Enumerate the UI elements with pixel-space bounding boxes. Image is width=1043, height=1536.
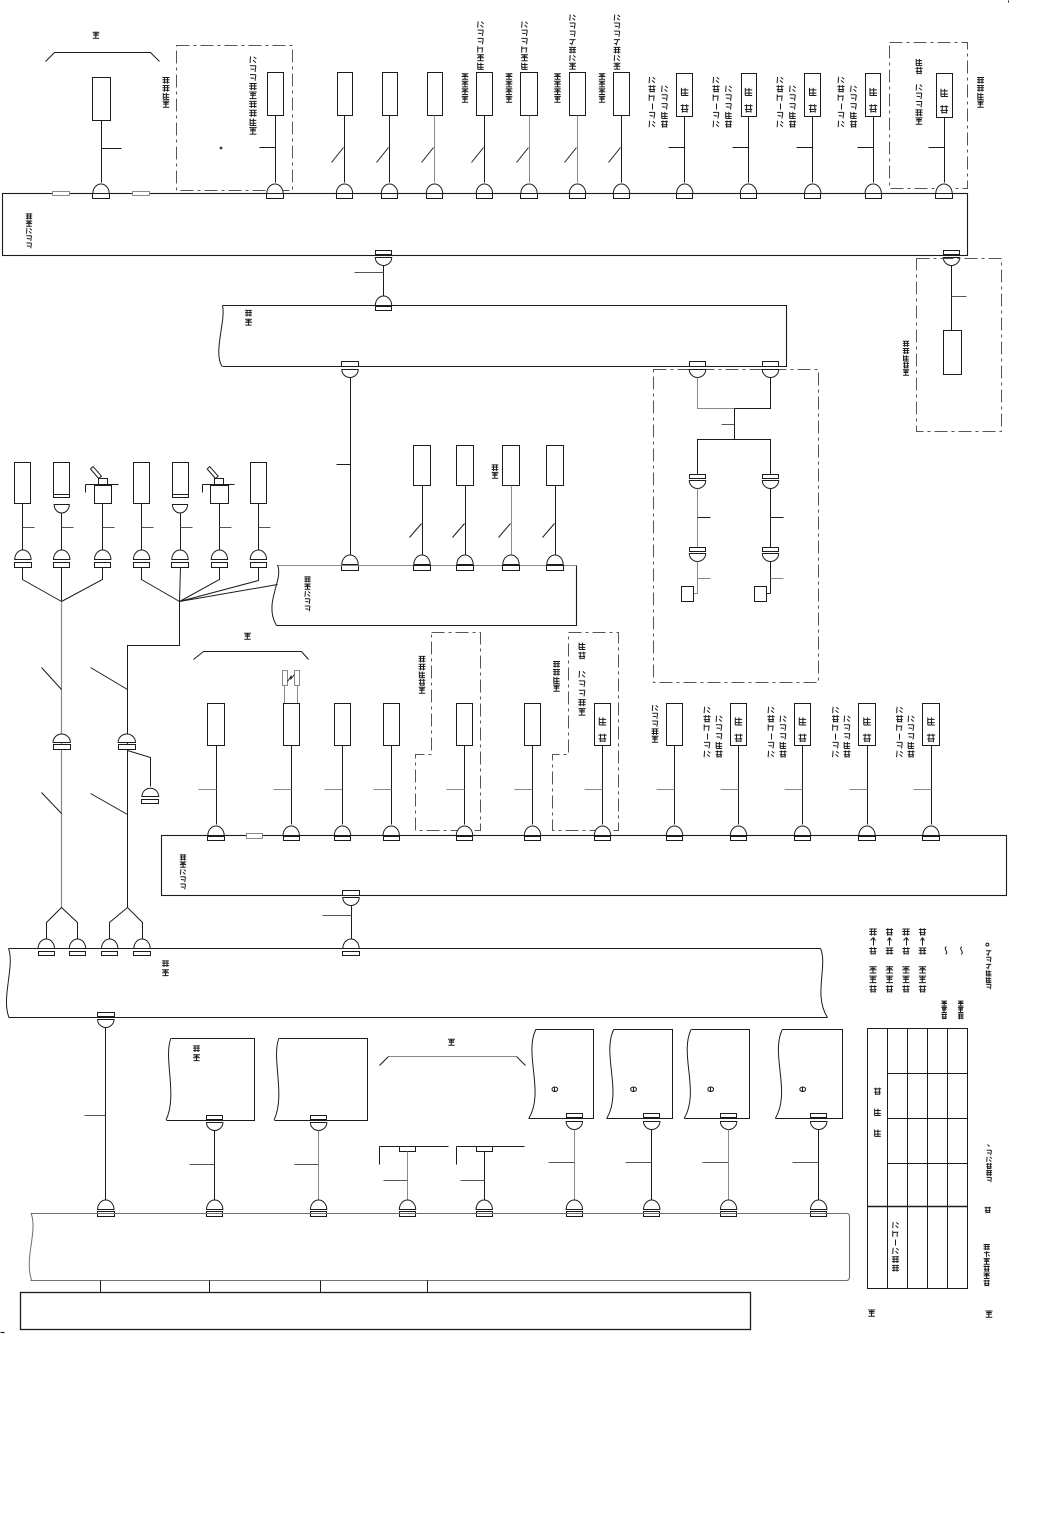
tick on theta wire 2 [626, 1162, 652, 1164]
label 対象ケーブル [892, 1265, 899, 1271]
connector plug on box1 at x=748.5 [740, 184, 756, 194]
wire L6 down to connector [219, 504, 221, 552]
cable slash mark Mx=465 [453, 524, 465, 538]
sensor body at x=944 (top row) [937, 74, 953, 118]
table column line x=947.7 [947, 1029, 949, 1289]
relay box theta 1 [529, 1030, 594, 1119]
sensor body at x=342.5 (lower row) [335, 704, 351, 746]
tick on branch x=697.5 [698, 517, 711, 519]
margin mark top-right [1008, 1, 1010, 3]
label theta 1 [552, 1087, 558, 1091]
entry connector box6 top x=484.2 [476, 1200, 492, 1210]
label theta 4 [800, 1087, 806, 1091]
distribution bar wire [698, 440, 771, 475]
relay box 中継 A (small) [167, 1039, 255, 1121]
inline connector pair L2 [54, 550, 70, 559]
tick on wire x=291.2 [274, 789, 292, 791]
Y-split of trunk1 [47, 908, 78, 939]
wire from sensor x=674.5 to box4 [674, 746, 676, 825]
annotation 奥基準 右→左 [919, 985, 926, 992]
table column line x=887.1 [887, 1029, 889, 1289]
enclosure 自動幅調 (dash-dot, top-right) [890, 43, 968, 189]
wire from sensor x=101 to box1 [101, 121, 103, 183]
tick on wire L1 [23, 527, 35, 529]
relay box センサ中継 (top) [3, 194, 968, 256]
connector plug on box5 at x=142 [134, 939, 150, 948]
enclosure 一括交換台 (dash-dot, right) [917, 259, 1002, 432]
relay box B (small, unlabeled) [275, 1039, 368, 1121]
inline connector pair L5 [172, 550, 188, 560]
label 接続先 [875, 1129, 881, 1136]
wire from sensor x=216 to box4 [216, 746, 218, 825]
label 原点センサ [652, 736, 659, 742]
cable slash mark x=344.5 [332, 148, 344, 163]
label 右基板 [958, 1014, 964, 1019]
sensor M at x=422 (middle row) [414, 446, 431, 486]
tick on wire x=391.2 [374, 789, 392, 791]
tick on wire L7 [259, 527, 271, 529]
tick mark on wire x=350 [337, 464, 351, 466]
tick on branch x=770.5 [771, 517, 784, 519]
wire L2 to junction J1 [61, 568, 63, 602]
connector plug on box4 at x=802.5 [794, 826, 810, 836]
sensor body at x=275 (top row) [268, 73, 284, 116]
exit connector theta box 1 [567, 1114, 583, 1118]
wavy left edge box5 [6, 949, 10, 1018]
stems of R2 head [284, 686, 286, 704]
label 注 (right margin) [985, 1311, 992, 1317]
sensor body at x=748.5 (top row) [742, 74, 757, 117]
wire L4 down to connector [141, 504, 143, 552]
wire sensor M x=422 to box3 [422, 486, 424, 555]
limit-switch sensor L3 at x=102.7 [95, 486, 112, 504]
link wire box6-box7 at x=209.9 [209, 1281, 211, 1293]
label theta 3 [708, 1087, 714, 1091]
wavy left edge box B [274, 1038, 279, 1120]
label 左基板 [941, 1014, 947, 1020]
slash mark on trunk1 upper [42, 668, 62, 690]
sensor body at x=674.5 (lower row) [667, 704, 683, 746]
tick on wire L6 [220, 527, 232, 529]
tick grey on branch x=697.5 [698, 578, 711, 580]
tick on wire x=351 [323, 915, 352, 917]
connector plug on box1 at x=944 [936, 184, 952, 194]
exit connector on box1 bottom at x=383.5 [376, 251, 392, 255]
socket on rail x=407.5 [400, 1147, 416, 1152]
annotation 前基準 左→右 [869, 985, 876, 992]
label 検出センサ 受光 [578, 709, 585, 716]
wire L7 down to connector [258, 504, 260, 552]
inline connector A on branch x=697.5 [690, 475, 706, 479]
annotation 左 [984, 1207, 990, 1213]
connector plug on box4 at x=867 [859, 826, 875, 836]
wire from sensor x=275 to box1 [275, 116, 277, 183]
entry connector box6 top x=818.7 [811, 1200, 827, 1210]
label センサ中継 (box1) [26, 243, 31, 248]
tick mark on wire x=383.5 [355, 272, 384, 274]
connector plug on box1 at x=344.5 [336, 184, 352, 194]
label 自動幅調 (top-right) [977, 101, 984, 107]
label 注 (bottom) [448, 1039, 455, 1045]
sensor body at x=532.5 (lower row) [525, 704, 541, 746]
branch wire x=770.5 segment 1 [770, 489, 772, 548]
connector plug on box1 at x=873.2 [865, 184, 881, 194]
sensor body at x=684.7 (top row) [677, 74, 693, 117]
plug dome under L5 [172, 505, 187, 514]
enclosure 自動幅調 (dash-dot, top-left) [177, 46, 293, 191]
sensor body at x=344.5 (top row) [338, 73, 353, 116]
cable slash mark Mx=511 [499, 524, 511, 538]
entry connector box6 top x=407.5 [399, 1200, 415, 1210]
tick on wire x=674.5 [657, 789, 675, 791]
wire L7 to junction J2 [180, 568, 259, 602]
wire sensor M x=465 to box3 [465, 486, 467, 555]
connector plug on box1 at x=275 [267, 184, 283, 194]
sensor body at x=464.5 (lower row) [457, 704, 473, 746]
wire from sensor x=291.2 to box4 [291, 746, 293, 825]
wire from sensor x=434.5 to box1 [434, 116, 436, 183]
table header separator (thick) [868, 1206, 968, 1208]
sensor body at x=873.2 (top row) [866, 74, 881, 117]
tick on wire x=484.2 [461, 1180, 485, 1182]
cable slash mark Mx=555 [543, 524, 555, 538]
wire from sensor x=532.5 to box4 [532, 746, 534, 825]
connector plug on box1 at x=529 [521, 184, 537, 194]
label 一括交換台 [903, 370, 909, 376]
entry connector box6 top x=651.7 [644, 1200, 660, 1210]
relay box 中継 (wide lower) [9, 949, 828, 1018]
wavy break edge of box3 [272, 565, 279, 626]
connector plug on box3 at x=555 [547, 555, 563, 565]
plug dome under L2 [54, 505, 69, 514]
socket on rail x=484.2 [477, 1147, 493, 1152]
tick mark on wire x=951.5 [952, 296, 967, 298]
sensor M at x=555 (middle row) [547, 446, 564, 486]
connector plug on box1 at x=812.7 [805, 184, 821, 194]
wire from sensor x=342.5 to box4 [342, 746, 344, 825]
cable slash mark x=389.5 [377, 148, 389, 163]
tick on wire L4 [142, 527, 154, 529]
exit connector box2 bottom x=350 [342, 362, 359, 367]
connector plug on box4 at x=216 [208, 826, 224, 835]
connector plug on box1 at x=389.5 [381, 184, 397, 194]
branch wire x=770.5 segment 2 [770, 562, 772, 594]
enclosure 自動幅調 (dash-dot, lower) [553, 633, 619, 831]
wire from sensor x=484.4 to box1 [484, 116, 486, 183]
enclosure (dash-dot, center) [654, 370, 819, 683]
relay box theta 4 [776, 1030, 843, 1119]
annotation 前基準 右→左 [886, 985, 893, 992]
pickup rail structure at x=484.2 [457, 1146, 525, 1148]
relay box センサ中継 (long, lower) [162, 836, 1007, 896]
wire sensor M x=555 to box3 [555, 486, 557, 555]
tick on wire x=318.6 [295, 1164, 319, 1166]
connection table frame [868, 1029, 968, 1289]
label 自動幅調 (lower) [553, 685, 560, 691]
slash mark on trunk2 upper [91, 668, 128, 690]
wire box A to box6 [214, 1131, 216, 1203]
wire stub from box3 break to junction J2 [180, 585, 278, 602]
exit connector box4 bottom x=351 [343, 891, 360, 896]
sensor body at x=931 (lower row) [923, 704, 940, 746]
wire from sensor x=931 to box4 [931, 746, 933, 825]
connector plug on box5 at x=77.5 [69, 939, 85, 948]
tick on theta wire 4 [793, 1162, 819, 1164]
relay box theta 3 [685, 1030, 750, 1119]
sensor body at x=216 (lower row) [208, 704, 225, 746]
wire from sensor x=602.5 to box4 [602, 746, 604, 825]
connector plug on box4 at x=738.5 [730, 826, 746, 836]
connector plug on box4 at x=464.5 [456, 826, 472, 836]
tick on wire x=216 [199, 789, 217, 791]
connector plug on box1 at x=484.4 [476, 184, 492, 194]
lever arm of L3 [91, 467, 102, 479]
tick on wire x=602.5 [585, 789, 603, 791]
cable slash mark x=529 [517, 148, 529, 163]
tick on wire x=738.5 [721, 789, 739, 791]
wire L5 down to connector [180, 514, 182, 552]
inline connector A on branch x=770.5 [763, 475, 779, 479]
tick on wire L3 [103, 527, 115, 529]
wire from sensor x=748.5 to box1 [748, 117, 750, 183]
sensor body at x=291.2 (lower row) [284, 704, 300, 746]
label 自動幅調原点センサ [249, 128, 256, 135]
wire from sensor x=577.5 to box1 [577, 116, 579, 183]
wire theta4 to box6 [818, 1130, 820, 1203]
wire from sensor x=464.5 to box4 [464, 746, 466, 825]
tick on wire x=407.5 [384, 1180, 408, 1182]
note bracket 注 (bottom) [389, 1056, 517, 1058]
tick on center stem [722, 424, 735, 426]
label 自動幅調 (enclosure) [163, 101, 170, 107]
connector plug on box4 at x=532.5 [524, 826, 540, 836]
sensor body at x=602.5 (lower row) [595, 704, 611, 746]
wavy left edge box A [166, 1038, 171, 1120]
sensor body at x=484.4 (top row) [477, 73, 493, 116]
wire from sensor x=802.5 to box4 [802, 746, 804, 825]
label 注 (table left) [868, 1310, 875, 1316]
sensor body at x=389.5 (top row) [383, 73, 398, 116]
label 中継 (box2) [245, 319, 252, 325]
tick on theta wire 1 [549, 1162, 575, 1164]
tick on wire x=802.5 [785, 789, 803, 791]
wire from sensor x=389.5 to box1 [389, 116, 391, 183]
wire box2 to box3 x=350 [350, 378, 352, 555]
sensor M at x=511 (middle row) [503, 446, 520, 486]
sensor L2 with plug at x=61.7 [54, 463, 70, 498]
enclosure 一括交換台 (dash-dot, lower) [416, 633, 481, 831]
connector plug on box4 at x=602.5 [594, 826, 610, 836]
tick on wire x=214.7 [190, 1164, 215, 1166]
table row line y=1118.6 [888, 1118, 968, 1120]
terminal box (bottom-most) [21, 1293, 751, 1330]
cable slash mark x=434.5 [422, 148, 434, 163]
entry connector box3 top x=350 [342, 555, 358, 565]
wire box4 to box5 x=351 [351, 906, 353, 939]
table row line y=1163.1 [888, 1163, 968, 1165]
connector plug on box4 at x=342.5 [334, 826, 350, 836]
wavy break edge of box2 [219, 306, 223, 367]
wavy right edge box5 [821, 949, 828, 1018]
sensor L1 at x=22.9 [15, 463, 31, 504]
wire from sensor x=391.2 to box4 [391, 746, 393, 825]
sensor body at x=738.5 (lower row) [731, 704, 747, 746]
exit connector box5 bottom x=105.8 [98, 1013, 115, 1017]
branch wire x=697.5 segment 2 [697, 562, 699, 594]
entry connector box6 top x=105.8 [98, 1200, 114, 1210]
relay box theta 2 [607, 1030, 673, 1119]
table column line x=907.2 [907, 1029, 909, 1289]
annotation 奥基準 左→右 [902, 985, 909, 992]
tilde mark 2 [961, 947, 963, 955]
wire rail to box6 x=484.2 [484, 1152, 486, 1203]
limit-switch sensor L6 at x=219.4 [211, 486, 229, 504]
slash mark on trunk1 lower [42, 793, 62, 814]
wire from sensor x=529 to box1 [529, 116, 531, 183]
label theta 2 [631, 1087, 637, 1091]
exit connector box2 bottom x=697.5 [690, 362, 706, 367]
wire L6 to junction J2 [180, 568, 220, 602]
sensor body at x=101 (top row) [93, 78, 111, 121]
connector plug on box5 at x=46.3 [38, 939, 54, 949]
connector plug on box4 at x=931 [923, 826, 939, 836]
label センサ中継 (box3) [305, 606, 310, 611]
wire box5 to box6 x=105.8 [105, 1028, 107, 1203]
wire L3 down to connector [102, 504, 104, 552]
sensor L5 with plug at x=180 [173, 463, 189, 498]
wire theta3 to box6 [728, 1130, 730, 1203]
inline connector pair on trunk2 [118, 734, 135, 743]
connector plug on box1 at x=684.7 [677, 184, 693, 194]
exit connector on box1 bottom at x=951.5 [944, 251, 960, 255]
tick on wire x=105.8 [85, 1115, 106, 1117]
entry connector box5 top x=351 [343, 939, 359, 949]
wire theta2 to box6 [651, 1130, 653, 1203]
label 中継 (box A) [193, 1055, 200, 1061]
tick on wire L2 [62, 527, 74, 529]
inline connector pair L3 [95, 550, 111, 560]
wire from sensor x=738.5 to box4 [738, 746, 740, 825]
wire L5 to junction J2 [180, 568, 181, 602]
connector plug on box4 at x=674.5 [666, 826, 682, 836]
wire rail to box6 x=407.5 [407, 1152, 409, 1203]
wire sensor M x=511 to box3 [511, 486, 513, 555]
wire from sensor x=684.7 to box1 [684, 117, 686, 183]
actuator cap of L6 [215, 479, 224, 486]
entry connector box6 top x=574.3 [566, 1200, 582, 1210]
inline connector B on branch x=697.5 [690, 548, 706, 552]
cable slash mark x=577.5 [565, 148, 577, 163]
exit connector theta box 3 [721, 1114, 737, 1118]
connector plug on box4 at x=391.2 [383, 826, 399, 835]
Y-split of trunk2 [110, 908, 143, 939]
note bracket 注 (top-left) [46, 53, 160, 62]
entry connector on box2 top at x=383.5 [375, 296, 391, 306]
sensor R2 with photo-interrupter head [283, 671, 288, 686]
sensor body at x=529 (top row) [521, 73, 538, 116]
wire L3 to junction J1 [62, 568, 103, 602]
sensor body at x=391.2 (lower row) [384, 704, 400, 746]
cable slash mark x=621.5 [609, 148, 621, 163]
wire L2 down to connector [61, 514, 63, 552]
actuator cap of L3 [99, 479, 108, 486]
margin dash bottom-left [1, 1332, 5, 1334]
flash mark of R2 [288, 675, 295, 682]
wire from sensor x=944 to box1 [944, 118, 946, 183]
wire pair from box2 into center enclosure [698, 378, 735, 409]
tick on wire x=464.5 [447, 789, 465, 791]
table column line x=927.5 [927, 1029, 929, 1289]
entry connector box6 top x=728.6 [720, 1200, 736, 1210]
exit connector box2 bottom x=770.5 [763, 362, 779, 367]
tilde mark 1 [945, 947, 947, 955]
exit connector theta box 2 [644, 1114, 660, 1118]
wire L4 to junction J2 [142, 568, 180, 602]
tick on wire L5 [181, 527, 193, 529]
relay box センサ中継 (middle) [278, 565, 577, 567]
spare socket on box4 [247, 834, 263, 839]
sensor L4 at x=141.6 [134, 463, 150, 504]
annotation 搬送方向が右 [984, 1280, 990, 1286]
entry connector box6 top x=214.7 [207, 1200, 223, 1209]
connector plug on box3 at x=422 [414, 555, 430, 565]
tick on wire x=342.5 [325, 789, 343, 791]
annotation の場合には、 [987, 1177, 992, 1182]
connector plug on box1 at x=434.5 [426, 184, 442, 194]
wire L1 to junction J1 [23, 568, 62, 602]
pickup rail structure at x=407.5 [380, 1146, 449, 1148]
wire L1 down to connector [22, 504, 24, 552]
sensor M at x=465 (middle row) [457, 446, 474, 486]
cable slash mark x=484.4 [472, 148, 484, 163]
exit connector box B x=318.6 [311, 1116, 327, 1120]
inline connector pair L1 [15, 550, 31, 559]
sensor body inside 一括交換台 [944, 331, 962, 375]
wire from sensor x=867 to box4 [867, 746, 869, 825]
wire theta1 to box6 [574, 1130, 576, 1203]
link wire box6-box7 at x=427.2 [427, 1281, 429, 1293]
label センサ中継 (box4) [180, 884, 185, 889]
spare socket J1a on box1 [53, 192, 70, 196]
annotation の接続となる。 [986, 984, 991, 989]
tick on theta wire 3 [703, 1162, 729, 1164]
spare socket J1b on box1 [133, 192, 150, 196]
connector plug on box3 at x=511 [503, 555, 519, 565]
inline connector pair L7 [250, 550, 266, 560]
connector plug on box3 at x=465 [457, 555, 473, 565]
connector plug on box1 at x=101 [93, 184, 109, 193]
connector plug on box1 at x=621.5 [613, 184, 629, 194]
hanging plug connector [142, 788, 159, 796]
link wire box6-box7 at x=100.2 [100, 1281, 102, 1293]
tick on wire x=931 [914, 789, 932, 791]
wire from sensor x=621.5 to box1 [621, 116, 623, 183]
sensor body at x=867 (lower row) [859, 704, 876, 746]
branch stub to hanging plug [128, 751, 151, 787]
terminal square on branch x=770.5 [767, 593, 771, 595]
note bracket 注 (middle) [194, 652, 309, 660]
connector plug on box5 at x=109.7 [102, 939, 118, 949]
dot mark inside enclosure [220, 147, 223, 150]
connector plug on box1 at x=577.5 [569, 184, 585, 194]
exit connector box A x=214.7 [207, 1116, 223, 1120]
sensor body at x=802.5 (lower row) [795, 704, 811, 746]
sensor body at x=621.5 (top row) [614, 73, 630, 116]
relay box 中継 (second) [223, 306, 787, 367]
inline connector pair on trunk1 [53, 734, 70, 742]
center stem wire [734, 409, 736, 440]
connector plug on box4 at x=291.2 [283, 826, 299, 835]
